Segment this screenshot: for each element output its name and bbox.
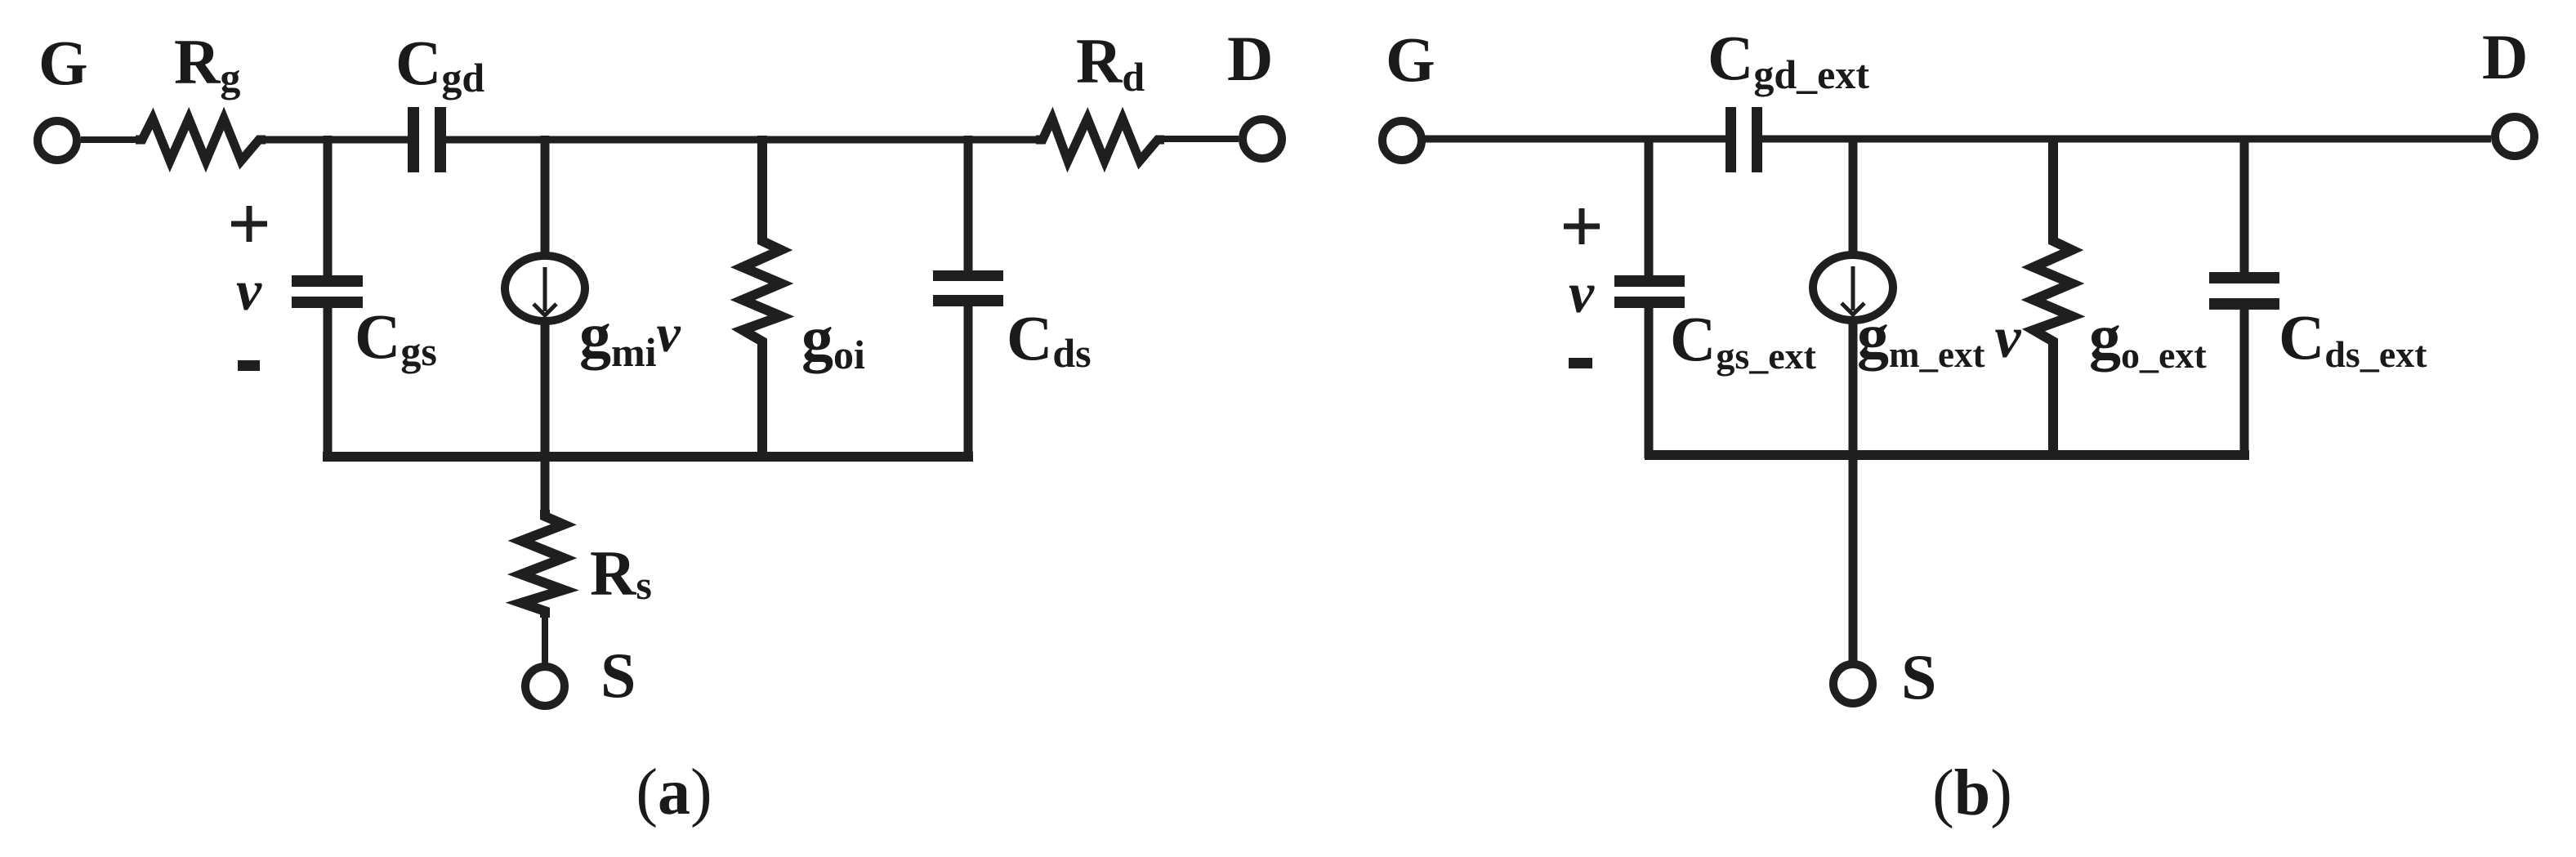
wire gm branch bottom to Rs xyxy=(541,320,550,513)
wire top (b) drain node xyxy=(1762,136,2491,143)
wire Cgs branch bottom xyxy=(324,308,333,460)
wire bottom rail (a) xyxy=(323,452,973,462)
svg-text:G: G xyxy=(38,27,88,98)
svg-text:S: S xyxy=(600,640,636,711)
wire Cgs branch top xyxy=(324,136,333,276)
wire top (b) gate node xyxy=(1422,136,1726,143)
svg-text:D: D xyxy=(2482,21,2528,92)
capacitor Cds xyxy=(933,270,1003,306)
wire gm branch top xyxy=(541,136,550,257)
current source arrow (b) xyxy=(1842,266,1864,315)
svg-text:(b): (b) xyxy=(1932,757,2012,829)
current source gm_ext·v xyxy=(1813,255,1893,320)
wire top (a) gate node xyxy=(259,136,408,144)
resistor Rs xyxy=(521,510,564,618)
svg-text:S: S xyxy=(1901,641,1936,712)
wire Cds branch bottom xyxy=(964,306,973,460)
terminal G (b) xyxy=(1382,121,1422,160)
wire D lead (a) xyxy=(1158,136,1239,142)
terminal S (a) xyxy=(525,667,565,706)
wire gm_ext branch top xyxy=(1849,136,1858,256)
resistor Rd xyxy=(1036,118,1164,161)
label + (a) xyxy=(231,206,267,242)
wire S lead (a) xyxy=(542,611,548,663)
label - (a) xyxy=(238,360,260,371)
terminal G (a) xyxy=(38,121,77,160)
wire goi branch bottom xyxy=(757,339,767,460)
svg-text:(a): (a) xyxy=(636,757,712,828)
wire G lead (a) xyxy=(81,136,144,143)
svg-text:G: G xyxy=(1386,24,1435,95)
label + (b) xyxy=(1564,208,1600,244)
terminal D (a) xyxy=(1243,119,1282,158)
capacitor Cds_ext xyxy=(2209,272,2279,310)
terminal S (b) xyxy=(1833,664,1873,703)
capacitor Cgd xyxy=(408,107,446,172)
resistor Rg xyxy=(136,118,266,161)
wire Cgs_ext branch bottom xyxy=(1645,308,1654,458)
wire goi branch top xyxy=(757,136,767,243)
wire Cds_ext branch top xyxy=(2240,136,2249,273)
current source arrow xyxy=(534,267,556,315)
svg-text:v: v xyxy=(236,260,262,323)
wire top (a) drain node xyxy=(446,136,1042,144)
wire go_ext branch bottom xyxy=(2048,339,2058,458)
current source gmi·v xyxy=(505,256,585,321)
wire Cds_ext branch bottom xyxy=(2240,310,2249,458)
wire Cds branch top xyxy=(964,136,973,271)
wire go_ext branch top xyxy=(2048,136,2058,243)
label - (b) xyxy=(1569,358,1592,368)
svg-text:v: v xyxy=(1569,262,1595,325)
svg-text:D: D xyxy=(1227,23,1273,94)
wire bottom rail (b) xyxy=(1645,450,2249,460)
wire gm_ext branch through to S xyxy=(1849,319,1858,661)
capacitor Cgs xyxy=(292,275,363,308)
capacitor Cgs_ext xyxy=(1614,275,1685,308)
capacitor Cgd_ext xyxy=(1726,107,1762,172)
resistor go_ext xyxy=(2034,234,2072,348)
terminal D (b) xyxy=(2495,117,2534,156)
resistor goi xyxy=(743,234,781,348)
wire Cgs_ext branch top xyxy=(1645,136,1654,276)
